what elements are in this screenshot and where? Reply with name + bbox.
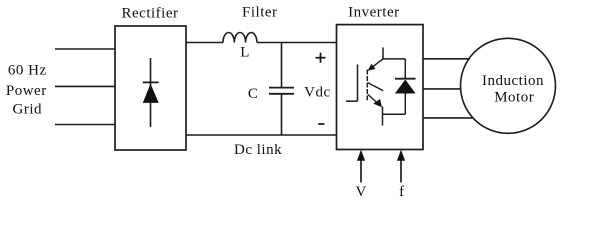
diode D1 cathode bar [143, 81, 159, 83]
node: + polarity mark [316, 57, 326, 59]
diode D2 cathode bar [395, 78, 416, 80]
diode D2 bottom lead [404, 94, 406, 115]
wire: capacitor bottom lead [281, 94, 283, 135]
svg-text:C: C [248, 86, 259, 102]
transistor Q1 gate bar [357, 64, 359, 101]
wire: dc+ rail inductor to inverter [257, 42, 337, 44]
diode D1 (rectifier) wire [150, 58, 152, 127]
svg-text:Power: Power [6, 83, 47, 99]
wire: dc- rail [186, 134, 337, 136]
svg-text:V: V [356, 184, 367, 200]
wire: motor phase 3 [423, 117, 473, 119]
wire: grid input phase 2 [55, 85, 115, 87]
transistor Q1 collector diagonal with arrow [370, 59, 384, 69]
svg-text:f: f [399, 184, 405, 200]
diode D1 triangle [143, 84, 159, 103]
transistor Q1 channel bar [366, 70, 368, 101]
svg-text:Filter: Filter [242, 4, 278, 20]
wire: grid input phase 3 [55, 124, 115, 126]
svg-text:Rectifier: Rectifier [122, 5, 179, 21]
svg-text:L: L [240, 45, 250, 61]
svg-text:Dc link: Dc link [234, 142, 282, 158]
control input arrow V [360, 158, 362, 183]
svg-text:Vdc: Vdc [304, 84, 331, 100]
rectifier block [115, 26, 186, 150]
svg-text:Motor: Motor [494, 89, 534, 105]
svg-text:Grid: Grid [13, 102, 43, 118]
diode D2 triangle [395, 80, 416, 94]
diode D2 (freewheel) top lead [404, 59, 406, 79]
node: 60 Hz Power Grid label [6, 63, 47, 118]
node: - polarity mark [318, 123, 324, 125]
svg-text:Inverter: Inverter [348, 4, 399, 20]
transistor Q1 (IGBT) gate lead [346, 100, 358, 102]
inverter block [337, 25, 424, 150]
svg-text:60 Hz: 60 Hz [8, 63, 47, 79]
wire: bottom tie to diode [383, 113, 406, 115]
transistor Q1 collector lead [382, 48, 384, 60]
wire: grid input phase 1 [55, 48, 115, 50]
capacitor C plates [269, 87, 294, 89]
transistor Q1 emitter diagonal with arrow [368, 95, 379, 105]
inductor L [223, 32, 257, 42]
transistor Q1 body diagonal [368, 83, 383, 91]
wire: top tie to diode [383, 58, 405, 60]
control input arrow f [400, 158, 402, 183]
wire: motor phase 1 [423, 58, 470, 60]
wire: dc+ rail rectifier to inductor [186, 42, 223, 44]
induction motor M1 circle [461, 38, 556, 133]
transistor Q1 emitter lead [382, 107, 384, 126]
wire: motor phase 2 [423, 88, 462, 90]
svg-text:Induction: Induction [482, 73, 544, 89]
wire: capacitor top lead [281, 43, 283, 88]
